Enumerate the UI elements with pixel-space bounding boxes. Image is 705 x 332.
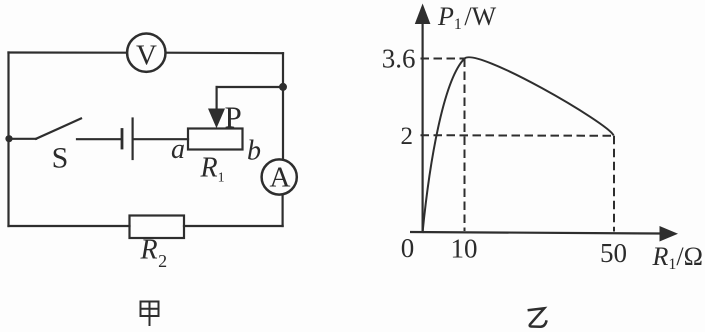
svg-text:a: a — [171, 134, 185, 165]
wire: bottom left (corner to R2) — [9, 225, 130, 227]
graph: dashed guide 2 W horizontal — [421, 134, 615, 137]
graph: x-axis arrowhead — [660, 226, 679, 242]
wire: switch hinge lead — [9, 138, 36, 140]
svg-text:V: V — [136, 40, 157, 72]
svg-text:b: b — [247, 136, 261, 167]
graph: x-axis — [410, 232, 662, 234]
svg-text:2: 2 — [401, 123, 414, 150]
wire: right vertical lower (ammeter to bottom corner) — [282, 195, 284, 226]
node: right junction — [279, 83, 287, 91]
svg-text:R2: R2 — [140, 235, 168, 272]
graph: y-axis arrowhead — [415, 4, 431, 25]
rheostat R1 body — [188, 129, 243, 150]
battery positive plate (long) — [132, 119, 134, 160]
wire: battery to rheostat a-terminal — [134, 138, 188, 140]
switch S blade — [36, 119, 81, 139]
svg-text:S: S — [52, 142, 69, 175]
node: left junction — [5, 135, 12, 142]
caption: yi (figure 乙) — [528, 308, 547, 327]
voltmeter V circle — [127, 34, 165, 72]
wire: slider vertical drop — [216, 87, 218, 112]
caption: jia (figure 甲) — [141, 302, 159, 327]
graph: power curve P1(R1) — [423, 57, 614, 233]
svg-text:P1/W: P1/W — [437, 2, 497, 33]
svg-text:10: 10 — [451, 234, 478, 264]
svg-text:R1/Ω: R1/Ω — [652, 242, 703, 273]
svg-text:0: 0 — [401, 233, 415, 263]
svg-text:3.6: 3.6 — [382, 44, 416, 74]
slider P arrowhead — [208, 109, 225, 129]
svg-text:R1: R1 — [200, 153, 225, 186]
wire: slider horizontal to right branch — [217, 86, 283, 88]
wire: bottom right (R2 to corner) — [184, 225, 283, 227]
svg-text:50: 50 — [600, 238, 627, 268]
wire: left vertical — [7, 53, 9, 227]
wire: top right (voltmeter to right corner) — [166, 52, 283, 55]
svg-text:P: P — [225, 100, 242, 135]
wire: top left (corner to voltmeter) — [9, 51, 128, 53]
graph: dashed guide 3.6 W horizontal — [421, 58, 465, 60]
ammeter A circle — [262, 159, 297, 194]
wire: right vertical upper (corner to ammeter) — [282, 53, 284, 160]
svg-text:A: A — [270, 162, 291, 194]
wire: switch contact to battery — [77, 138, 121, 140]
resistor R2 body — [130, 216, 185, 239]
battery negative plate (short) — [121, 130, 124, 149]
graph: dashed guide 10 ohm vertical — [464, 59, 466, 232]
graph: dashed guide 50 ohm vertical — [613, 136, 615, 232]
graph: y-axis — [422, 20, 424, 233]
